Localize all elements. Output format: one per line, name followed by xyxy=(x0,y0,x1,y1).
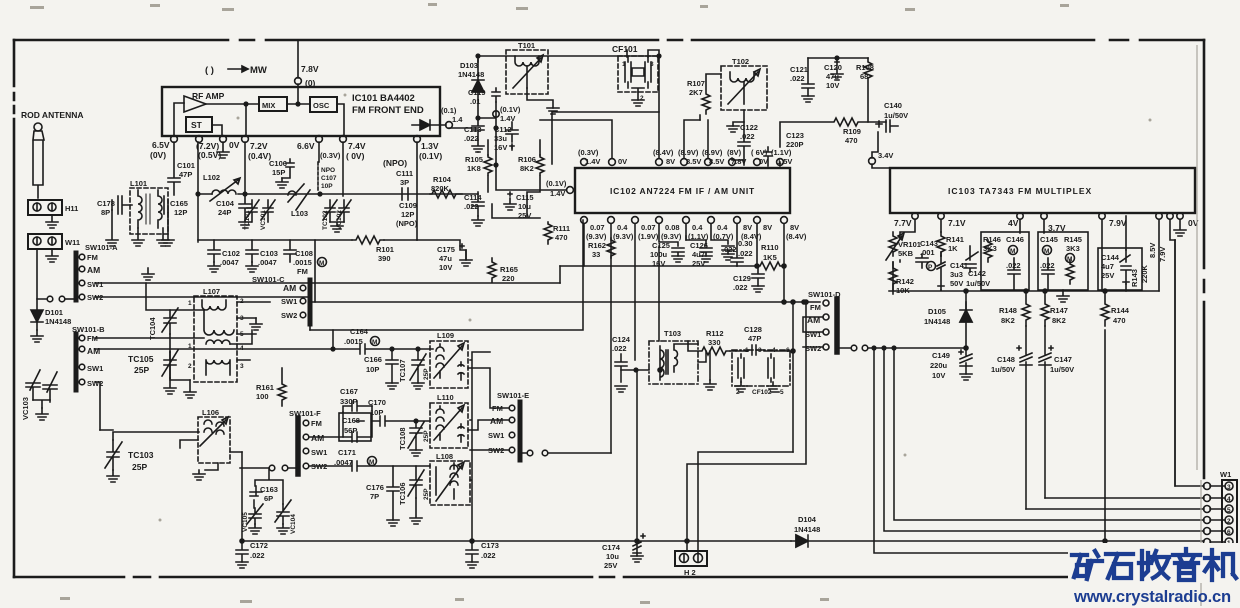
svg-text:(0): (0) xyxy=(305,78,316,88)
svg-text:0V: 0V xyxy=(229,140,240,150)
wire TC103 to L106 xyxy=(100,430,199,440)
MIX block xyxy=(259,97,287,111)
svg-text:TC105: TC105 xyxy=(128,354,154,364)
svg-text:24P: 24P xyxy=(218,208,231,217)
svg-text:3: 3 xyxy=(1227,484,1231,491)
svg-text:5: 5 xyxy=(1227,507,1231,514)
svg-text:220u: 220u xyxy=(930,361,948,370)
svg-text:0.4: 0.4 xyxy=(692,223,703,232)
svg-text:8P: 8P xyxy=(101,208,110,217)
long wire rows to W1 xyxy=(1175,240,1204,486)
NPO C107 10P xyxy=(317,162,319,192)
wire verticals long to bottom xyxy=(611,224,659,541)
svg-text:( ): ( ) xyxy=(205,65,214,76)
svg-text:.01: .01 xyxy=(470,97,480,106)
svg-text:C176: C176 xyxy=(366,483,384,492)
ground C166 xyxy=(386,383,398,389)
svg-text:2: 2 xyxy=(640,95,644,102)
svg-text:8.5V: 8.5V xyxy=(1148,243,1157,258)
svg-text:L101: L101 xyxy=(130,179,147,188)
svg-text:TC103: TC103 xyxy=(128,450,154,460)
svg-text:0.30: 0.30 xyxy=(738,239,753,248)
wire bus 302 xyxy=(315,301,820,303)
svg-text:6.5V: 6.5V xyxy=(152,140,170,150)
wire SW101-C bus xyxy=(310,240,315,330)
wire R101 to C109 xyxy=(198,239,417,241)
svg-text:IC102 AN7224 FM IF / AM UN: IC102 AN7224 FM IF / AM UNIT xyxy=(610,186,755,196)
glyph shou xyxy=(1139,551,1169,579)
svg-text:P: P xyxy=(928,264,933,271)
svg-text:1.4V: 1.4V xyxy=(500,114,515,123)
border frame bottom xyxy=(14,576,1075,579)
svg-text:ROD ANTENNA: ROD ANTENNA xyxy=(21,110,84,120)
svg-text:R165: R165 xyxy=(500,265,518,274)
wires SW101-E xyxy=(470,450,526,453)
svg-text:(8V): (8V) xyxy=(727,148,742,157)
wire W11 down to D101 xyxy=(37,249,46,299)
svg-text:FM: FM xyxy=(311,419,322,428)
wire top right xyxy=(808,57,868,59)
IC102 box xyxy=(575,168,790,213)
svg-text:SW101-C: SW101-C xyxy=(252,275,285,284)
svg-text:C145: C145 xyxy=(1040,235,1058,244)
svg-text:1u/50V: 1u/50V xyxy=(1050,365,1074,374)
svg-text:R104: R104 xyxy=(433,175,452,184)
svg-text:.022: .022 xyxy=(250,551,265,560)
svg-text:R142: R142 xyxy=(896,277,914,286)
svg-text:L103: L103 xyxy=(291,209,308,218)
svg-text:R147: R147 xyxy=(1050,306,1068,315)
svg-text:1N4148: 1N4148 xyxy=(458,70,484,79)
ground R112 xyxy=(704,380,716,390)
svg-text:(0.4V): (0.4V) xyxy=(248,151,271,161)
svg-text:(9.3V): (9.3V) xyxy=(613,232,634,241)
svg-text:ST: ST xyxy=(191,120,203,130)
wires L107 left xyxy=(95,283,270,380)
svg-text:.0047: .0047 xyxy=(220,258,239,267)
svg-text:10u: 10u xyxy=(606,552,619,561)
svg-text:C120: C120 xyxy=(824,63,842,72)
svg-text:C144: C144 xyxy=(1101,253,1120,262)
svg-text:47u: 47u xyxy=(439,254,452,263)
wire top pins up xyxy=(659,112,780,166)
svg-text:(NPO): (NPO) xyxy=(396,219,418,228)
svg-text:R145: R145 xyxy=(1064,235,1082,244)
connector W11 xyxy=(28,234,62,249)
IC103 bottom pin circles xyxy=(912,213,918,219)
svg-text:R141: R141 xyxy=(946,235,964,244)
svg-text:C114: C114 xyxy=(464,193,482,202)
ground C173 xyxy=(466,562,478,568)
svg-text:470: 470 xyxy=(1113,316,1126,325)
wires SW101-F rows xyxy=(309,412,430,471)
svg-text:TC108: TC108 xyxy=(398,427,407,450)
svg-text:C173: C173 xyxy=(481,541,499,550)
ST block xyxy=(186,117,212,132)
svg-text:C111: C111 xyxy=(396,169,413,178)
svg-text:10u: 10u xyxy=(518,202,531,211)
svg-text:7.8V: 7.8V xyxy=(731,157,746,166)
svg-text:SW101-E: SW101-E xyxy=(497,391,529,400)
svg-text:3K3: 3K3 xyxy=(1066,244,1080,253)
svg-text:W1: W1 xyxy=(1220,470,1231,479)
svg-text:L106: L106 xyxy=(202,408,219,417)
svg-text:C171: C171 xyxy=(338,448,356,457)
svg-text:56P: 56P xyxy=(344,426,357,435)
svg-text:C146: C146 xyxy=(1006,235,1024,244)
ground C103 xyxy=(246,262,258,272)
svg-text:(1.9V): (1.9V) xyxy=(638,232,659,241)
svg-text:.0047: .0047 xyxy=(258,258,277,267)
ground under C145 box xyxy=(1057,290,1069,302)
svg-text:VR101: VR101 xyxy=(898,240,921,249)
svg-text:C140: C140 xyxy=(884,101,902,110)
svg-text:25P: 25P xyxy=(134,365,149,375)
svg-text:0.08: 0.08 xyxy=(665,223,680,232)
wire L110 out xyxy=(468,420,509,430)
svg-text:C174: C174 xyxy=(602,543,621,552)
svg-text:7.4V: 7.4V xyxy=(348,141,366,151)
svg-text:R105: R105 xyxy=(465,155,483,164)
svg-text:( 6V): ( 6V) xyxy=(751,148,768,157)
svg-text:R106: R106 xyxy=(518,155,536,164)
svg-text:330P: 330P xyxy=(340,397,358,406)
svg-text:8V: 8V xyxy=(743,223,752,232)
svg-text:2K7: 2K7 xyxy=(689,88,703,97)
svg-text:1.4: 1.4 xyxy=(452,115,463,124)
trimmer TC103 xyxy=(105,440,122,470)
wires CF101 xyxy=(552,50,659,164)
svg-text:C103: C103 xyxy=(260,249,278,258)
svg-text:SW1: SW1 xyxy=(311,448,327,457)
ground CF101 pin2 xyxy=(632,100,644,106)
svg-text:.022: .022 xyxy=(481,551,496,560)
IC102 left pin xyxy=(567,187,574,194)
svg-text:100: 100 xyxy=(256,392,269,401)
svg-text:CF101: CF101 xyxy=(612,44,638,54)
svg-text:RF AMP: RF AMP xyxy=(192,91,225,101)
IC101 pin circles xyxy=(171,136,178,143)
wire bus 285 vertical link xyxy=(559,266,561,283)
scan artifact line right xyxy=(1197,45,1201,606)
svg-text:25P: 25P xyxy=(423,368,430,380)
svg-text:3.4V: 3.4V xyxy=(878,151,893,160)
svg-text:(8.9V): (8.9V) xyxy=(678,148,699,157)
svg-text:3: 3 xyxy=(240,363,244,370)
ground TC105 xyxy=(184,380,196,398)
border frame left xyxy=(13,40,16,577)
ground VC105 xyxy=(249,524,261,534)
ground under VC103 xyxy=(36,408,48,420)
svg-text:C147: C147 xyxy=(1054,355,1072,364)
svg-text:(9.3V): (9.3V) xyxy=(586,232,607,241)
svg-text:10V: 10V xyxy=(439,263,452,272)
svg-text:5KB: 5KB xyxy=(898,249,914,258)
svg-text:C166: C166 xyxy=(364,355,382,364)
C144/R143 box xyxy=(1098,248,1142,290)
svg-text:8K2: 8K2 xyxy=(1001,316,1015,325)
ground L106 xyxy=(193,470,205,480)
diode D101 xyxy=(31,299,43,330)
svg-text:8V: 8V xyxy=(790,223,799,232)
ground C172 xyxy=(236,562,248,568)
svg-text:47P: 47P xyxy=(179,170,192,179)
svg-text:0.4: 0.4 xyxy=(617,223,628,232)
svg-text:C123: C123 xyxy=(786,131,804,140)
ground under 0V pin xyxy=(217,142,229,158)
svg-text:SW1: SW1 xyxy=(87,280,103,289)
svg-text:0.07: 0.07 xyxy=(641,223,656,232)
svg-text:25V: 25V xyxy=(604,561,617,570)
svg-text:(0.3V): (0.3V) xyxy=(578,148,599,157)
ground right of L107 xyxy=(250,318,262,330)
OSC block xyxy=(310,97,337,112)
svg-text:C170: C170 xyxy=(368,398,386,407)
svg-text:SW1: SW1 xyxy=(87,364,103,373)
pin 3.4V xyxy=(869,158,876,165)
svg-text:(0.3V): (0.3V) xyxy=(320,151,341,160)
glyph shi xyxy=(1106,554,1133,578)
varicap VC103 xyxy=(26,370,57,408)
svg-text:.022: .022 xyxy=(612,344,627,353)
SW101-E output nodes xyxy=(527,450,533,456)
pin label 1.4V xyxy=(493,111,499,117)
svg-text:.022: .022 xyxy=(740,132,755,141)
svg-text:(0.1V): (0.1V) xyxy=(500,105,521,114)
svg-text:2: 2 xyxy=(188,363,192,370)
svg-text:R148: R148 xyxy=(999,306,1017,315)
glyph ji xyxy=(1205,550,1236,580)
svg-text:TC106: TC106 xyxy=(398,482,407,505)
svg-text:MIX: MIX xyxy=(262,101,275,110)
svg-text:1.3V: 1.3V xyxy=(421,141,439,151)
connector H11 xyxy=(28,200,62,215)
svg-text:8K2: 8K2 xyxy=(1052,316,1066,325)
ground under C178 xyxy=(106,210,118,246)
svg-text:1.4V: 1.4V xyxy=(550,189,565,198)
svg-text:8K2: 8K2 xyxy=(520,164,534,173)
svg-text:(1.1V): (1.1V) xyxy=(771,148,792,157)
svg-text:( 0V): ( 0V) xyxy=(346,151,365,161)
border frame right xyxy=(1203,40,1206,570)
svg-text:R101: R101 xyxy=(376,245,394,254)
svg-text:10V: 10V xyxy=(932,371,945,380)
wire T101 bottom xyxy=(527,88,553,108)
wires inside IC101 xyxy=(174,103,344,136)
ground TC104 xyxy=(164,334,176,394)
ground T102 xyxy=(727,126,739,132)
ground T101 xyxy=(547,108,559,114)
svg-text:AM: AM xyxy=(311,433,324,443)
wire SW2-A row xyxy=(95,296,310,298)
svg-text:SW2: SW2 xyxy=(281,311,297,320)
svg-text:7.1V: 7.1V xyxy=(948,218,966,228)
svg-text:6: 6 xyxy=(1227,529,1231,536)
svg-text:15P: 15P xyxy=(272,168,285,177)
svg-text:10P: 10P xyxy=(370,408,383,417)
svg-text:L107: L107 xyxy=(203,287,220,296)
svg-text:SW1: SW1 xyxy=(488,431,504,440)
SW101-D output node xyxy=(851,345,857,351)
svg-text:2: 2 xyxy=(1227,518,1231,525)
wire bus 330 to IC102 xyxy=(310,220,583,330)
svg-text:VC103: VC103 xyxy=(21,397,30,420)
svg-text:10V: 10V xyxy=(826,81,839,90)
connector H2 xyxy=(675,551,707,566)
wires below IC103 xyxy=(900,216,1175,291)
svg-text:0V: 0V xyxy=(759,157,768,166)
svg-text:FM: FM xyxy=(810,303,821,312)
svg-text:3P: 3P xyxy=(400,178,409,187)
svg-text:L102: L102 xyxy=(203,173,220,182)
svg-text:0V: 0V xyxy=(618,157,627,166)
svg-text:330: 330 xyxy=(708,338,721,347)
wire L109 out xyxy=(468,368,509,408)
glyph yin xyxy=(1173,549,1200,580)
svg-text:C149: C149 xyxy=(932,351,950,360)
vertical bus right of L coils xyxy=(470,352,490,543)
svg-text:3u3: 3u3 xyxy=(950,270,963,279)
svg-text:33: 33 xyxy=(592,250,600,259)
wire SW1-A row xyxy=(95,282,560,284)
wire verticals from bus 302 down xyxy=(792,302,794,452)
svg-text:C128: C128 xyxy=(744,325,762,334)
svg-text:7.2V: 7.2V xyxy=(250,141,268,151)
wire SW101-F row down xyxy=(255,468,283,504)
svg-text:(0.1V): (0.1V) xyxy=(546,179,567,188)
svg-text:C109: C109 xyxy=(399,201,417,210)
ground under L101 right xyxy=(157,228,169,246)
R146/C146 box xyxy=(981,232,1029,290)
wire SW2-B row xyxy=(95,382,100,430)
svg-text:TC104: TC104 xyxy=(148,317,157,340)
svg-text:C115: C115 xyxy=(516,193,534,202)
svg-text:4V: 4V xyxy=(1008,218,1019,228)
svg-text:www.crystalradio.cn: www.crystalradio.cn xyxy=(1073,587,1231,606)
svg-text:.022: .022 xyxy=(738,249,753,258)
svg-text:AM: AM xyxy=(87,265,100,275)
svg-text:(0.1V): (0.1V) xyxy=(419,151,442,161)
svg-text:R162: R162 xyxy=(588,241,606,250)
svg-text:W11: W11 xyxy=(65,238,80,247)
svg-text:(8.4V): (8.4V) xyxy=(786,232,807,241)
svg-text:R144: R144 xyxy=(1111,306,1130,315)
svg-text:D105: D105 xyxy=(928,307,946,316)
svg-text:C102: C102 xyxy=(222,249,240,258)
svg-text:0.4: 0.4 xyxy=(717,223,728,232)
svg-text:1: 1 xyxy=(188,300,192,307)
svg-text:C172: C172 xyxy=(250,541,268,550)
node circles left of SW101-F xyxy=(269,465,275,471)
svg-text:C124: C124 xyxy=(612,335,631,344)
ground C113 xyxy=(472,140,484,152)
svg-text:T101: T101 xyxy=(518,41,535,50)
svg-text:C143: C143 xyxy=(920,239,938,248)
svg-text:FM: FM xyxy=(297,267,308,276)
svg-text:25P: 25P xyxy=(423,488,430,500)
svg-text:AM: AM xyxy=(283,283,296,293)
svg-text:0.07: 0.07 xyxy=(590,223,605,232)
svg-text:1u/50V: 1u/50V xyxy=(884,111,908,120)
svg-text:L109: L109 xyxy=(437,331,454,340)
svg-text:1N4148: 1N4148 xyxy=(794,525,820,534)
svg-text:SW1: SW1 xyxy=(281,297,297,306)
svg-text:.022: .022 xyxy=(790,74,805,83)
SW101-D wires xyxy=(803,317,850,348)
svg-text:50V: 50V xyxy=(950,279,963,288)
svg-text:6P: 6P xyxy=(264,494,273,503)
svg-text:C104: C104 xyxy=(216,199,235,208)
svg-text:470: 470 xyxy=(555,233,568,242)
ground under H11 xyxy=(46,215,58,228)
svg-text:10P: 10P xyxy=(321,183,333,190)
svg-text:25P: 25P xyxy=(132,462,147,472)
pin 9 circle xyxy=(446,122,453,129)
svg-text:SW2: SW2 xyxy=(805,344,821,353)
svg-text:7.7V: 7.7V xyxy=(894,218,912,228)
wires to H2 xyxy=(685,539,689,543)
svg-text:C165: C165 xyxy=(170,199,188,208)
wire T102 bottom to ground xyxy=(700,110,744,126)
C145/R145 box xyxy=(1038,232,1088,290)
svg-text:CF102: CF102 xyxy=(752,389,772,396)
svg-text:C175: C175 xyxy=(437,245,455,254)
wire bus 266 xyxy=(560,224,784,302)
ground C114 xyxy=(472,216,484,226)
svg-text:SW2: SW2 xyxy=(87,379,103,388)
svg-text:.022: .022 xyxy=(733,283,748,292)
wire AM-B row xyxy=(95,348,333,350)
svg-text:470: 470 xyxy=(845,136,858,145)
svg-text:C148: C148 xyxy=(997,355,1015,364)
svg-text:SW101-A: SW101-A xyxy=(85,243,118,252)
svg-text:M: M xyxy=(372,339,377,346)
watermark background patch xyxy=(1068,543,1240,583)
svg-text:1u/50V: 1u/50V xyxy=(966,279,990,288)
svg-text:IC101 BA4402: IC101 BA4402 xyxy=(352,93,415,104)
svg-text:8V: 8V xyxy=(666,157,675,166)
IC102 bottom pin circles xyxy=(581,217,588,224)
svg-text:D104: D104 xyxy=(798,515,817,524)
svg-text:C121: C121 xyxy=(790,65,808,74)
svg-text:SW101-F: SW101-F xyxy=(289,409,321,418)
ground C149 xyxy=(960,374,972,380)
svg-text:1N4148: 1N4148 xyxy=(45,317,71,326)
ground under D101 xyxy=(31,330,43,342)
svg-text:4u7: 4u7 xyxy=(1101,262,1114,271)
wire C124 to T103 xyxy=(621,369,649,371)
svg-text:T103: T103 xyxy=(664,329,681,338)
wires L106 xyxy=(180,440,242,470)
svg-text:390: 390 xyxy=(378,254,391,263)
svg-text:MW: MW xyxy=(250,65,267,76)
svg-text:M: M xyxy=(319,260,324,267)
svg-text:C107: C107 xyxy=(321,175,337,182)
svg-text:IC103 TA7343 FM MULTIP: IC103 TA7343 FM MULTIPLEX xyxy=(948,186,1092,196)
wire R112 to ground xyxy=(710,351,736,380)
svg-text:1u/50V: 1u/50V xyxy=(991,365,1015,374)
svg-text:C129: C129 xyxy=(733,274,751,283)
svg-text:R111: R111 xyxy=(553,224,570,233)
svg-text:1: 1 xyxy=(188,343,192,350)
svg-text:M: M xyxy=(1010,248,1015,255)
svg-text:OSC: OSC xyxy=(313,101,330,110)
svg-text:1K8: 1K8 xyxy=(467,164,481,173)
svg-text:.022: .022 xyxy=(464,134,479,143)
ground TC107 xyxy=(412,383,424,389)
ground C176 xyxy=(387,520,399,526)
svg-text:12P: 12P xyxy=(401,210,414,219)
